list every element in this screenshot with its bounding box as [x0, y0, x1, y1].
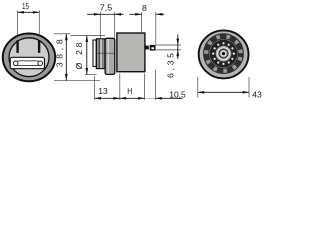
inner face circle: [9, 38, 49, 77]
pin right: [38, 40, 40, 53]
bottom dimension chain line: [95, 97, 145, 99]
dimension 38,8 line and arrows: [65, 34, 67, 81]
knurled mid ring: [204, 34, 244, 74]
center bullseye: [215, 45, 231, 61]
pin left: [16, 40, 18, 53]
svg-text:10,5: 10,5: [169, 90, 186, 100]
dimension 7,5 line and arrows: [87, 13, 100, 15]
knurl marks (dashed dark ring): [206, 36, 241, 71]
solder pin dots: [212, 42, 235, 65]
dimension 10,5 outside arrow: [155, 97, 161, 100]
dimension Ø28 extension lines: [71, 35, 106, 37]
washer: [93, 40, 96, 67]
dimension 15 extension lines: [17, 10, 19, 35]
mid ring inner edge: [209, 39, 239, 69]
outer shell ring: [199, 30, 249, 78]
dimension 6,35 extension lines: [156, 44, 181, 46]
contact plate: [10, 57, 44, 68]
dimension 43 extension lines: [197, 77, 199, 98]
terminal stub: [145, 46, 149, 50]
svg-text:43: 43: [252, 89, 262, 99]
svg-text:7,5: 7,5: [100, 2, 113, 12]
dimension 6,35 line and arrows: [177, 35, 179, 60]
dimension 13 arrows: [95, 97, 101, 100]
svg-text:6,35: 6,35: [166, 53, 176, 78]
locking nut: [96, 39, 105, 69]
housing body: [117, 33, 145, 72]
dimension 7,5 extension lines: [99, 12, 101, 38]
mid horizontal line through nut/flange: [97, 52, 114, 54]
outer ring of front view: [3, 34, 55, 82]
svg-text:8: 8: [142, 3, 147, 13]
terminal lug: [150, 45, 156, 51]
dimension 8 extension lines: [141, 12, 143, 33]
dimension 38,8 extension lines: [54, 33, 70, 35]
dimension H arrows: [120, 97, 126, 100]
svg-text:13: 13: [98, 86, 108, 96]
dimension 15 line and arrows: [18, 11, 40, 13]
bottom dimension chain ticks: [94, 76, 96, 100]
dimension 8 line and arrows: [130, 13, 142, 15]
slot lines in plate: [18, 60, 39, 62]
slot end hole left: [13, 61, 18, 66]
svg-text:15: 15: [22, 1, 29, 11]
flange: [105, 38, 115, 74]
dimension 43 line and arrows: [198, 91, 249, 93]
svg-text:H: H: [127, 86, 132, 96]
slot end hole right: [38, 61, 43, 66]
dark contact ring: [210, 40, 238, 68]
dimension Ø28 line and arrows: [86, 36, 88, 75]
